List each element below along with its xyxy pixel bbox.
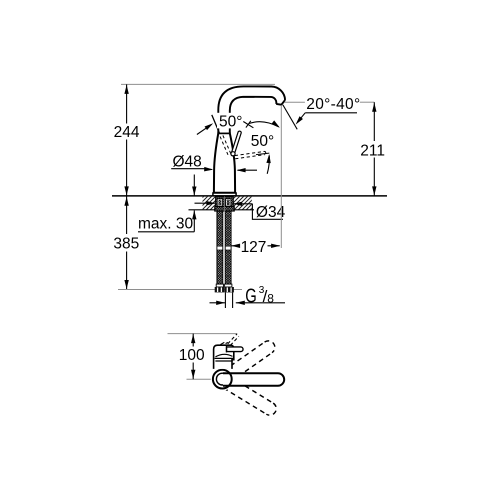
max. 30 dimension (deck thickness) (193, 175, 195, 196)
svg-text:244: 244 (114, 124, 140, 141)
shank (threaded) (216, 197, 234, 207)
Ø34 dimension arrows to shank (195, 202, 216, 204)
svg-text:G: G (245, 285, 256, 308)
vertical extension from spout tip (280, 105, 282, 248)
svg-text:127: 127 (241, 239, 267, 256)
dimension 100 (192, 334, 194, 347)
open lever tilted line (solid above body) (212, 115, 220, 133)
solid spout capsule (223, 373, 284, 386)
plan body upper block (214, 345, 234, 369)
hose cross-sections in shank (217, 199, 222, 206)
lowered lever (dashed) (235, 151, 265, 155)
svg-text:max. 30: max. 30 (138, 215, 194, 232)
leader arrow for 50 deg (upper) (197, 125, 211, 135)
hose braided upper segment (217, 211, 223, 247)
closed lever rod (231, 131, 241, 154)
svg-text:50°: 50° (251, 133, 274, 150)
hose gap (break) (216, 247, 232, 251)
extension line top (lever tip) (168, 333, 238, 335)
dashed swivel spout up (223, 338, 277, 381)
neck joint line (218, 132, 230, 134)
dashed swivel spout down (224, 377, 279, 418)
svg-text:8: 8 (267, 291, 274, 305)
svg-text:211: 211 (360, 143, 385, 160)
spout tube (218, 86, 285, 133)
dimension 385 vertical line (126, 196, 128, 234)
dimension 127 (231, 244, 240, 248)
svg-text:Ø48: Ø48 (173, 153, 202, 170)
dimension 211 (373, 102, 375, 141)
svg-text:100: 100 (179, 347, 205, 364)
cartridge dome arcs (216, 354, 233, 357)
extension line bottom of 385 (118, 289, 242, 291)
hose nuts (215, 287, 225, 292)
deck / counter line (112, 195, 387, 197)
extension line top (244 reference, spout top) (121, 83, 275, 85)
base plate (213, 193, 236, 196)
plan lever capsule (227, 347, 244, 352)
G3/8 tail tube (224, 292, 226, 308)
label 50 deg upper (217, 113, 245, 129)
small dashes top-left of plan body (220, 342, 224, 344)
deck cross-section right of shank (233, 197, 252, 210)
thin line from tip to 211 dimension (285, 101, 305, 103)
boss masking circle (211, 368, 234, 391)
dimension 244 vertical line (126, 84, 128, 123)
extension line bottom (spout axis) (187, 378, 214, 380)
pivot circle (231, 152, 235, 156)
spout tip angled line (20-40 deg) (283, 105, 297, 129)
outer boss circle (213, 370, 232, 389)
tick cross at rod tip (243, 122, 253, 128)
mounting collar under deck (215, 207, 235, 212)
svg-text:20°-40°: 20°-40° (306, 96, 360, 113)
hidden lever inside body (dashed) (220, 137, 229, 157)
arc arrow up (50 deg lower) (267, 156, 269, 174)
centerline (224, 186, 226, 212)
dashed lever up position (plan) (228, 334, 237, 344)
hose braided lower segment (217, 250, 223, 284)
hose end collars (216, 284, 223, 287)
G3/8 arrows (210, 302, 226, 304)
inner boss circle (216, 373, 228, 385)
svg-text:50°: 50° (219, 113, 242, 130)
deck cross-section left of shank (203, 197, 216, 210)
svg-text:385: 385 (113, 235, 139, 252)
arc arrow to spout extension (50 deg upper sweep) (249, 122, 279, 127)
faucet body (side view) (214, 133, 235, 193)
